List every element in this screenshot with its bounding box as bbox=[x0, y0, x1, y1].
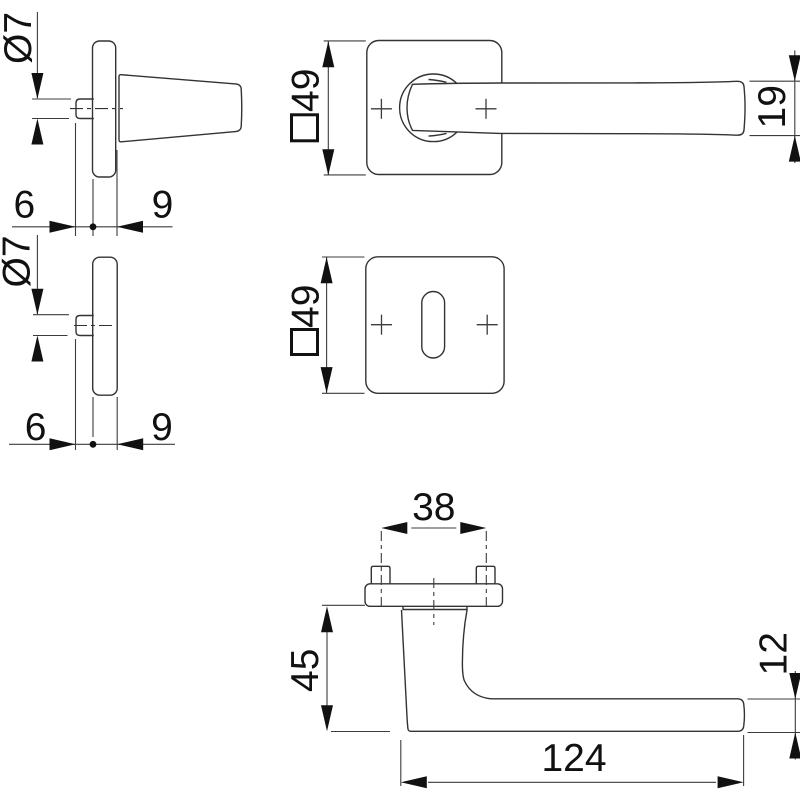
svg-text:49: 49 bbox=[285, 285, 328, 328]
svg-text:12: 12 bbox=[753, 632, 796, 675]
svg-text:6: 6 bbox=[14, 184, 36, 227]
svg-text:124: 124 bbox=[541, 737, 606, 780]
svg-text:45: 45 bbox=[284, 649, 327, 692]
svg-text:19: 19 bbox=[751, 85, 794, 128]
svg-text:49: 49 bbox=[285, 69, 328, 112]
svg-text:Ø7: Ø7 bbox=[0, 12, 40, 64]
svg-text:38: 38 bbox=[412, 486, 455, 529]
svg-text:Ø7: Ø7 bbox=[0, 235, 39, 287]
svg-text:9: 9 bbox=[152, 184, 174, 227]
svg-text:6: 6 bbox=[25, 406, 47, 449]
svg-text:9: 9 bbox=[151, 406, 173, 449]
